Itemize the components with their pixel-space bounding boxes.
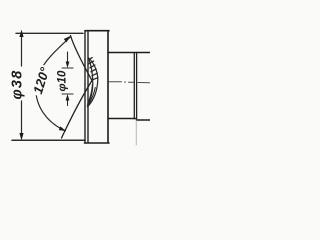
label 120deg [29,64,53,98]
arrow dia38 bottom [19,133,23,141]
extension line top (for dia 38) [16,32,83,34]
countersink lower edge line [62,81,93,139]
flange left face line 1 [84,31,86,143]
cone lower inner curve [88,84,93,105]
faint line below step [135,120,137,145]
countersink upper edge line [71,36,93,81]
dimension line dia38 [21,35,23,137]
angle arc 120 [36,37,71,131]
arrow dia10 down [66,62,70,69]
extension line bottom (for dia 38) [12,139,85,141]
flange outline [85,31,110,143]
dia10 dimension line bottom [67,99,69,106]
centerline [109,81,150,84]
cone shading hatch 3 [91,69,96,72]
arrow arc bottom [59,126,66,131]
dia10 extension tick bottom [62,93,73,95]
svg-text:φ38: φ38 [10,70,26,100]
cone shading hatch 1b [89,61,94,64]
dia10 dimension line top [67,52,69,63]
arrow dia38 top [19,30,23,38]
shaft step double line [134,53,136,120]
cone shading hatch 1 [88,58,92,60]
shaft bottom edge [108,119,150,121]
flange left face line 2 [87,31,89,143]
shaft top edge [108,52,150,54]
cone lower hatch [89,88,96,105]
svg-text:φ10: φ10 [57,70,69,91]
cone shading hatch 4 [92,73,97,76]
arrow dia10 up [66,94,70,101]
dia10 extension tick top [62,67,73,69]
arrow arc top [64,36,71,43]
cone shading hatch 5 [93,78,98,80]
countersink cone crescent outline [87,58,98,108]
cone shading hatch 2 [90,65,95,68]
